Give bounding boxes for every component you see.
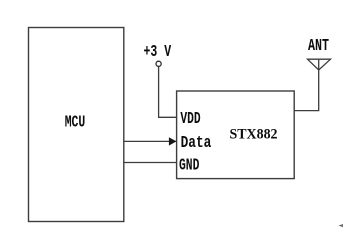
svg-text:VDD: VDD [180,110,200,129]
svg-text:STX882: STX882 [230,126,278,142]
wire: +3V terminal to VDD pin [159,67,177,118]
svg-text:MCU: MCU [65,113,86,132]
arrowhead on Data wire [169,137,176,145]
wire: antenna to STX882 ANT pin [294,70,319,111]
svg-text:+3 V: +3 V [144,43,172,62]
svg-text:ANT: ANT [308,36,329,55]
+3V terminal (open circle) [156,61,161,66]
svg-text:GND: GND [179,156,199,175]
wire: MCU to Data pin [124,140,177,142]
edge artifact mark [339,224,343,227]
STX882 module block [177,91,295,179]
svg-text:Data: Data [181,134,212,153]
antenna symbol [308,59,331,70]
MCU block U1 [29,28,124,222]
wire: MCU to GND pin [124,162,177,164]
